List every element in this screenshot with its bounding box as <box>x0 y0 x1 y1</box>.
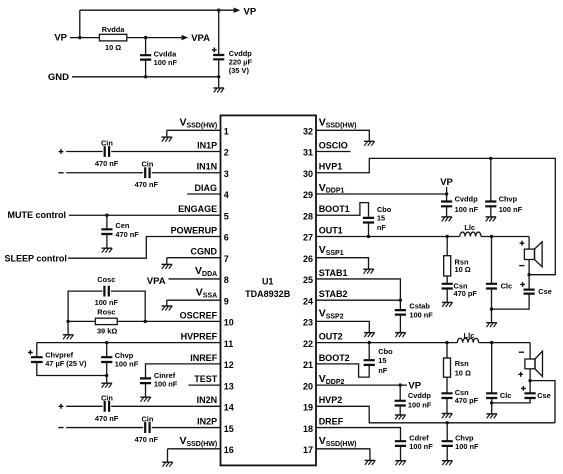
wire Clc2 to return node <box>491 398 493 403</box>
wire Cvddp2 bottom lead <box>399 406 401 416</box>
svg-text:STAB1: STAB1 <box>319 268 348 278</box>
svg-text:5: 5 <box>224 211 229 221</box>
svg-text:Chvpref: Chvpref <box>45 350 73 359</box>
svg-text:28: 28 <box>303 211 313 221</box>
inductor Llc (ch2) <box>457 338 478 342</box>
wire pin 17 VSSD <box>316 449 370 461</box>
capacitor Cosc <box>104 286 108 297</box>
svg-text:20: 20 <box>303 381 313 391</box>
svg-text:470 nF: 470 nF <box>135 180 159 189</box>
svg-text:VP: VP <box>408 381 421 392</box>
wire speaker2 to right rail <box>530 381 555 423</box>
wire Cosc to right leg <box>111 291 145 321</box>
ground Cvddp1 <box>441 217 452 222</box>
svg-text:Chvp: Chvp <box>455 433 474 442</box>
svg-text:2: 2 <box>224 148 229 158</box>
svg-text:24: 24 <box>303 296 313 306</box>
capacitor Cse (ch2, electrolytic) <box>525 393 536 398</box>
svg-text:47 µF (25 V): 47 µF (25 V) <box>45 359 87 368</box>
svg-text:VSSD(HW): VSSD(HW) <box>179 117 217 130</box>
ground Cdref <box>395 461 406 466</box>
node Cse1 return <box>490 307 493 310</box>
wire top VP rail <box>80 9 234 11</box>
wire Chvp2 bottom lead <box>446 446 448 461</box>
svg-text:30: 30 <box>303 169 313 179</box>
wire Rsn1 top lead <box>446 236 448 255</box>
svg-text:Cosc: Cosc <box>97 275 115 284</box>
svg-text:STAB2: STAB2 <box>319 289 348 299</box>
wire OUT1 to speaker 1 <box>528 236 530 249</box>
svg-text:100 nF: 100 nF <box>154 380 178 389</box>
svg-text:470 nF: 470 nF <box>115 230 139 239</box>
wire Cse2 top lead <box>529 381 531 394</box>
wire Chvp1 bottom lead <box>490 206 492 217</box>
node STAB junction <box>399 298 402 301</box>
svg-text:14: 14 <box>224 403 234 413</box>
wire pin 32 VSSD <box>316 130 369 141</box>
wire Chvp top lead <box>106 343 108 358</box>
svg-text:470 nF: 470 nF <box>135 435 159 444</box>
ground pin 32 <box>364 141 375 146</box>
svg-text:HVP2: HVP2 <box>319 395 343 405</box>
svg-text:VPA: VPA <box>147 276 166 287</box>
svg-text:12: 12 <box>224 360 234 370</box>
svg-text:BOOT1: BOOT1 <box>319 204 350 214</box>
svg-text:VSSP2: VSSP2 <box>319 308 344 321</box>
capacitor Cbo (ch2) <box>364 360 375 365</box>
svg-text:OUT2: OUT2 <box>319 332 343 342</box>
resistor Rsn (ch2) <box>444 358 451 377</box>
input + terminal channel 2 <box>59 404 64 409</box>
svg-text:Cse: Cse <box>538 287 552 296</box>
wire VP up to top rail <box>79 10 81 37</box>
wire Cinref bottom lead <box>145 383 147 397</box>
svg-text:nF: nF <box>378 366 388 375</box>
capacitor Cin (IN2N) <box>105 401 109 412</box>
wire pin 7 CGND <box>167 258 221 265</box>
svg-text:BOOT2: BOOT2 <box>319 353 350 363</box>
capacitor Cdref <box>395 441 406 446</box>
node VPA junction <box>144 36 147 39</box>
wire Clc1 to return node <box>491 289 493 310</box>
svg-text:21: 21 <box>303 360 313 370</box>
capacitor Cinref <box>140 378 151 383</box>
svg-text:VSSP1: VSSP1 <box>319 244 344 257</box>
capacitor Csn (ch2) <box>441 393 452 398</box>
resistor Rsn (ch1) <box>444 256 451 276</box>
svg-text:7: 7 <box>224 254 229 264</box>
node Rsn2 junction <box>445 341 448 344</box>
wire DIAG stub <box>187 193 220 195</box>
svg-text:GND: GND <box>48 72 69 83</box>
speaker 2 - terminal <box>519 351 524 353</box>
svg-text:470 nF: 470 nF <box>95 414 119 423</box>
svg-text:39 kΩ: 39 kΩ <box>97 326 117 335</box>
input - terminal channel 1 <box>58 172 63 174</box>
wire DREF to Cdref <box>316 428 401 442</box>
svg-text:Cstab: Cstab <box>409 302 430 311</box>
svg-text:Rosc: Rosc <box>97 308 115 317</box>
svg-text:100 nF: 100 nF <box>455 205 479 214</box>
ground pin 7 <box>162 264 173 269</box>
capacitor Cbo (ch1) <box>363 218 374 223</box>
wire Cosc loop top <box>68 291 102 321</box>
wire Chvpref top lead <box>36 343 38 358</box>
wire Cvddp top lead <box>218 10 220 55</box>
ground Clc2 <box>486 414 497 419</box>
svg-text:100 nF: 100 nF <box>154 58 178 67</box>
svg-text:OSCIO: OSCIO <box>319 140 348 150</box>
arrow to VPA <box>182 35 189 40</box>
svg-text:IN2N: IN2N <box>197 395 218 405</box>
polarity + of Cse2 <box>521 386 526 391</box>
svg-text:16: 16 <box>224 445 234 455</box>
svg-text:10 Ω: 10 Ω <box>105 43 121 52</box>
input + terminal channel 1 <box>59 149 64 154</box>
ground pin 23 <box>364 333 375 338</box>
wire Cin to IN1N <box>152 172 221 174</box>
wire Chvp2 top lead <box>446 423 448 441</box>
wire input+ to Cin (ch2) <box>66 405 102 407</box>
wire HVP1 rail <box>316 158 555 274</box>
svg-text:470 nF: 470 nF <box>95 159 119 168</box>
ground pin 9 <box>162 306 173 311</box>
wire OUT2 <box>316 342 457 344</box>
node Cbo2 on OUT2 <box>368 341 371 344</box>
input - terminal channel 2 <box>58 427 63 429</box>
svg-text:Cse: Cse <box>537 391 551 400</box>
wire OUT1 <box>316 235 460 237</box>
svg-text:VDDA: VDDA <box>195 265 217 278</box>
wire VDDP2 to VP node <box>316 384 407 386</box>
svg-text:Cvddp: Cvddp <box>408 391 431 400</box>
ground pin 17 <box>365 460 376 465</box>
node osc left <box>66 320 69 323</box>
svg-text:17: 17 <box>303 445 313 455</box>
wire SLEEP control to POWERUP <box>68 236 221 258</box>
speaker 2 + terminal <box>518 372 523 377</box>
svg-text:Rvdda: Rvdda <box>102 25 125 34</box>
wire Rsn2 top lead <box>446 343 448 358</box>
svg-text:31: 31 <box>303 148 313 158</box>
capacitor Cin (IN2P) <box>145 422 149 433</box>
wire pin 16 VSSD <box>168 449 221 462</box>
wire VDDP1 to VP node <box>316 193 447 195</box>
ground Chvp2 <box>442 461 453 466</box>
wire VP stub up (ch1) <box>446 187 448 194</box>
capacitor Cvdda <box>140 55 151 59</box>
svg-text:15: 15 <box>224 424 234 434</box>
wire Cvdda top lead <box>145 38 147 56</box>
svg-text:TDA8932B: TDA8932B <box>245 289 291 299</box>
capacitor Cin (IN1P) <box>105 146 109 157</box>
node speaker1/HVP1/Cse1 <box>527 273 530 276</box>
ground HVPREF caps <box>101 383 112 388</box>
wire Cstab top lead <box>399 300 401 310</box>
node VP junction <box>78 36 81 39</box>
loudspeaker channel 1 <box>524 242 542 267</box>
wire VP input <box>70 37 99 39</box>
capacitor Chvp (ch1) <box>485 202 496 207</box>
wire Rvdda to VPA <box>127 37 182 39</box>
wire Cstab bottom lead <box>399 315 401 333</box>
svg-text:VP: VP <box>54 33 67 44</box>
svg-text:15: 15 <box>377 214 385 223</box>
node Rsn1 junction <box>446 235 449 238</box>
ground (supply) <box>213 88 224 93</box>
wire speaker 1 bottom <box>528 260 530 275</box>
wire HVP2 rail <box>316 406 555 422</box>
wire INREF to Cinref <box>146 364 221 379</box>
ground Cstab <box>395 333 406 338</box>
wire GND rail to ground <box>218 77 220 88</box>
wire Cvddp1 top lead <box>446 194 448 202</box>
svg-text:27: 27 <box>303 233 313 243</box>
wire STAB1 <box>316 279 400 300</box>
ground oscillator <box>63 335 74 340</box>
svg-text:DREF: DREF <box>319 416 344 426</box>
svg-text:23: 23 <box>303 318 313 328</box>
ground Csn1 <box>442 302 453 307</box>
wire STAB2 <box>316 299 400 301</box>
wire Clc1 top lead <box>491 236 493 283</box>
wire Rsn1 to Csn1 <box>446 276 448 284</box>
speaker 1 + terminal <box>520 241 525 246</box>
svg-text:HVP1: HVP1 <box>319 162 343 172</box>
svg-text:Llc: Llc <box>464 331 475 340</box>
svg-text:6: 6 <box>224 233 229 243</box>
svg-text:4: 4 <box>224 190 229 200</box>
svg-text:IN1P: IN1P <box>197 140 217 150</box>
svg-text:Cin: Cin <box>101 139 113 148</box>
wire Cvdda bottom lead <box>145 60 147 77</box>
wire Cvddp2 top lead <box>399 385 401 401</box>
wire input- to Cin <box>66 172 143 174</box>
wire Cbo2 to BOOT2 <box>316 364 369 377</box>
wire Chvpref bottom lead <box>37 362 107 376</box>
wire osc to ground <box>67 321 69 334</box>
polarity + of Chvpref <box>28 350 33 355</box>
capacitor Cvddp (ch2) <box>395 401 406 406</box>
svg-text:470 pF: 470 pF <box>455 396 479 405</box>
wire OUT2 to speaker 2 <box>529 343 531 359</box>
wire Chvp bottom lead <box>106 362 108 383</box>
svg-text:SLEEP control: SLEEP control <box>5 254 67 264</box>
svg-text:100 nF: 100 nF <box>95 298 119 307</box>
node VP channel 1 <box>445 192 448 195</box>
node Chvp2 junction <box>446 421 449 424</box>
wire Clc1 ground lead <box>491 309 493 323</box>
svg-text:VSSD(HW): VSSD(HW) <box>179 435 217 448</box>
svg-text:Clc: Clc <box>500 391 512 400</box>
svg-text:100 nF: 100 nF <box>409 442 433 451</box>
wire HVPREF rail <box>37 342 221 344</box>
capacitor Clc (ch2) <box>486 393 497 398</box>
node Chvp junction (HVPREF) <box>105 341 108 344</box>
wire Rosc to OSCREF <box>117 320 220 322</box>
wire Clc2 ground lead <box>491 403 493 414</box>
svg-text:Rsn: Rsn <box>455 359 469 368</box>
polarity + of Cvddp <box>212 48 217 53</box>
svg-text:Cin: Cin <box>101 394 113 403</box>
svg-text:INREF: INREF <box>190 353 218 363</box>
svg-text:ENGAGE: ENGAGE <box>178 204 217 214</box>
svg-text:OSCREF: OSCREF <box>180 310 218 320</box>
capacitor Chvp (HVPREF) <box>101 357 112 362</box>
svg-text:9: 9 <box>224 296 229 306</box>
wire Csn2 bottom lead <box>446 398 448 414</box>
node osc right <box>144 320 147 323</box>
svg-text:VP: VP <box>440 177 453 188</box>
node Cvddp to GND <box>217 75 220 78</box>
wire Cin to IN2P <box>152 427 221 429</box>
svg-text:POWERUP: POWERUP <box>171 225 218 235</box>
wire Cen top lead <box>106 215 108 229</box>
wire Cbo2 top lead <box>368 343 370 361</box>
wire Chvp1 top lead <box>490 158 492 201</box>
svg-text:VSSD(HW): VSSD(HW) <box>319 435 357 448</box>
svg-text:10: 10 <box>224 318 234 328</box>
svg-text:(35 V): (35 V) <box>229 66 250 75</box>
svg-text:Cvddp: Cvddp <box>455 195 478 204</box>
svg-text:Cdref: Cdref <box>409 433 429 442</box>
svg-text:U1: U1 <box>262 276 274 286</box>
svg-text:nF: nF <box>377 223 387 232</box>
wire Rsn2 to Csn2 <box>446 377 448 393</box>
svg-text:HVPREF: HVPREF <box>181 332 218 342</box>
svg-text:10 Ω: 10 Ω <box>455 265 471 274</box>
svg-text:15: 15 <box>378 356 386 365</box>
svg-text:IN1N: IN1N <box>197 162 218 172</box>
svg-text:OUT1: OUT1 <box>319 225 343 235</box>
svg-text:Llc: Llc <box>464 223 475 232</box>
wire GND rail <box>72 76 219 78</box>
svg-text:VSSD(HW): VSSD(HW) <box>319 117 357 130</box>
svg-text:10 Ω: 10 Ω <box>455 369 471 378</box>
ground Chvp1 <box>486 217 497 222</box>
wire Cvddp1 bottom lead <box>446 206 448 217</box>
svg-text:470 pF: 470 pF <box>454 289 478 298</box>
wire OSCREF left <box>68 320 95 322</box>
ground pin 1 <box>162 137 173 142</box>
svg-text:VPA: VPA <box>191 33 210 44</box>
svg-text:Chvp: Chvp <box>499 195 518 204</box>
polarity + of Cse1 <box>520 282 525 287</box>
node speaker2/HVP2/Cse2 <box>528 379 531 382</box>
wire Cse1 return <box>492 294 530 310</box>
wire Clc2 top lead <box>491 343 493 394</box>
svg-text:19: 19 <box>303 403 313 413</box>
wire Cdref bottom lead <box>400 446 402 461</box>
wire input- to Cin (ch2) <box>66 427 143 429</box>
svg-text:100 nF: 100 nF <box>409 311 433 320</box>
resistor Rvdda <box>99 34 126 41</box>
node Cse2 return <box>490 401 493 404</box>
svg-text:100 nF: 100 nF <box>115 359 139 368</box>
svg-text:DIAG: DIAG <box>195 183 218 193</box>
wire pin 26 VSSP1 <box>316 258 369 270</box>
svg-text:MUTE control: MUTE control <box>8 210 67 220</box>
ground Cinref <box>140 397 151 402</box>
svg-text:Cen: Cen <box>115 221 129 230</box>
svg-text:13: 13 <box>224 381 234 391</box>
node Chvp1 junction on HVP1 rail <box>489 157 492 160</box>
wire speaker 2 bottom <box>529 369 531 381</box>
node Clc2 junction <box>490 341 493 344</box>
svg-text:29: 29 <box>303 190 313 200</box>
svg-text:3: 3 <box>224 169 229 179</box>
svg-text:32: 32 <box>303 127 313 137</box>
svg-text:100 nF: 100 nF <box>408 400 432 409</box>
wire input+ to Cin <box>66 151 102 153</box>
svg-text:VDDP1: VDDP1 <box>319 182 345 195</box>
capacitor Chvp (ch2) <box>442 441 453 446</box>
node top rail to Cvddp <box>217 9 220 12</box>
ground Cvddp2 <box>395 415 406 420</box>
capacitor Cvddp (ch1) <box>441 202 452 207</box>
capacitor Clc (ch1) <box>486 284 497 289</box>
capacitor Chvpref (electrolytic) <box>31 357 43 362</box>
wire Cin to IN2N <box>111 405 220 407</box>
node Cbo1 on OUT1 <box>367 235 370 238</box>
wire BOOT1 to Cbo1 <box>316 203 369 217</box>
svg-text:100 nF: 100 nF <box>499 205 523 214</box>
svg-text:18: 18 <box>303 424 313 434</box>
svg-text:Cin: Cin <box>141 160 153 169</box>
wire pin 9 VSSA <box>167 300 221 306</box>
svg-text:1: 1 <box>224 127 229 137</box>
wire TEST stub <box>188 384 220 386</box>
wire Csn1 bottom lead <box>446 289 448 303</box>
node Chvp bottom junction <box>105 374 108 377</box>
ground Csn2 <box>442 414 453 419</box>
svg-text:VSSA: VSSA <box>196 286 217 299</box>
svg-text:Cbo: Cbo <box>378 347 393 356</box>
capacitor Cin (IN1N) <box>145 167 149 178</box>
wire pin 1 VSSD <box>167 130 221 137</box>
wire MUTE control to ENGAGE <box>69 214 221 216</box>
inductor Llc (ch1) <box>460 232 481 236</box>
loudspeaker channel 2 <box>525 351 543 376</box>
svg-text:VP: VP <box>244 6 257 17</box>
svg-text:11: 11 <box>224 339 234 349</box>
wire VPA to VDDA <box>169 278 221 280</box>
wire Cin to IN1P <box>111 151 220 153</box>
svg-text:Clc: Clc <box>501 281 513 290</box>
wire Cvddp bottom lead <box>218 59 220 77</box>
svg-text:22: 22 <box>303 339 313 349</box>
ground Clc1 <box>486 323 497 328</box>
resistor Rosc <box>95 318 117 324</box>
wire Cen bottom lead <box>106 234 108 248</box>
capacitor Cvddp (electrolytic) <box>213 55 224 59</box>
arrow to VP <box>234 8 241 13</box>
capacitor Cen <box>101 229 112 234</box>
wire pin 23 VSSP2 <box>316 321 369 332</box>
wire Cse2 return <box>492 398 530 403</box>
node VP channel 2 <box>399 383 402 386</box>
svg-text:Cin: Cin <box>141 414 153 423</box>
svg-text:8: 8 <box>224 275 229 285</box>
svg-text:IN2P: IN2P <box>197 416 217 426</box>
svg-text:CGND: CGND <box>191 247 218 257</box>
svg-text:26: 26 <box>303 254 313 264</box>
capacitor Cstab <box>395 310 406 315</box>
svg-text:Cvdda: Cvdda <box>154 49 177 58</box>
ground pin 26 <box>363 269 374 274</box>
capacitor Csn (ch1) <box>442 284 453 289</box>
speaker 1 - terminal <box>519 265 524 267</box>
